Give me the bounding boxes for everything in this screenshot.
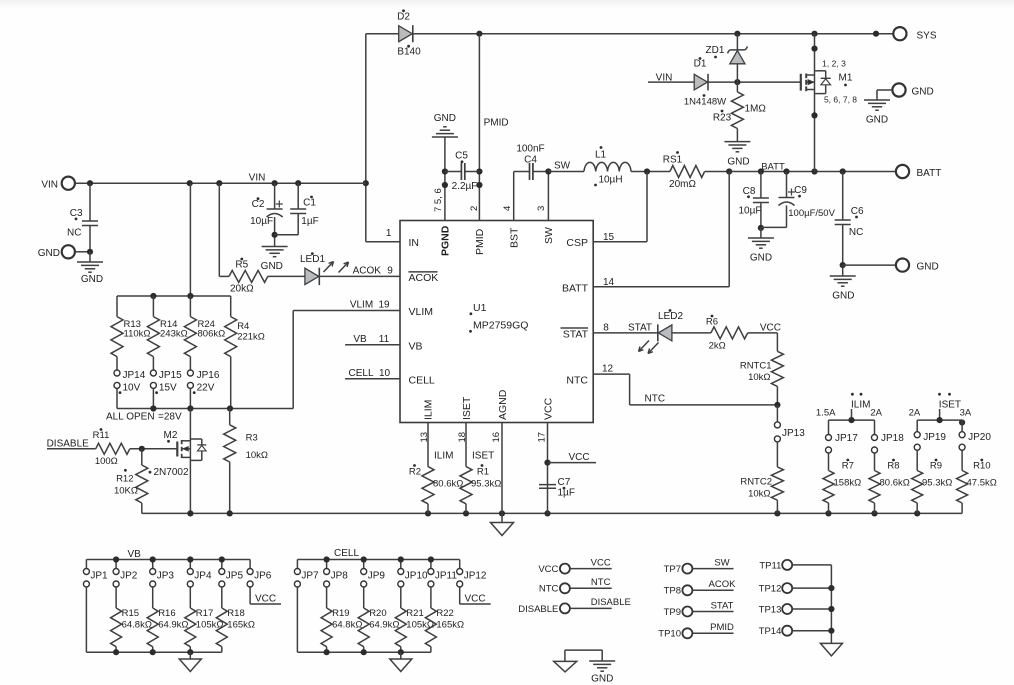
svg-text:R1: R1: [477, 467, 489, 478]
svg-text:R16: R16: [158, 608, 175, 619]
svg-text:806kΩ: 806kΩ: [198, 328, 226, 339]
svg-text:VCC: VCC: [542, 397, 554, 420]
svg-text:JP5: JP5: [226, 570, 244, 581]
svg-text:JP7: JP7: [301, 570, 319, 581]
svg-text:JP19: JP19: [923, 432, 946, 443]
svg-text:10KΩ: 10KΩ: [114, 486, 138, 497]
svg-text:GND: GND: [38, 248, 60, 259]
svg-text:R6: R6: [706, 317, 718, 328]
svg-text:NC: NC: [849, 227, 863, 238]
svg-text:NTC: NTC: [566, 374, 588, 386]
svg-text:158kΩ: 158kΩ: [834, 477, 862, 488]
svg-text:VCC: VCC: [538, 564, 558, 575]
svg-text:110kΩ: 110kΩ: [124, 328, 151, 339]
svg-text:10V: 10V: [123, 383, 141, 394]
svg-text:C4: C4: [524, 155, 537, 166]
svg-text:1: 1: [386, 228, 392, 239]
svg-text:R18: R18: [227, 608, 244, 619]
svg-text:R7: R7: [842, 460, 854, 471]
svg-text:243kΩ: 243kΩ: [160, 328, 188, 339]
svg-text:1µF: 1µF: [301, 216, 318, 227]
svg-text:80.6kΩ: 80.6kΩ: [880, 477, 910, 488]
svg-text:BST: BST: [509, 227, 521, 248]
svg-text:1, 2, 3: 1, 2, 3: [822, 59, 846, 69]
svg-text:4: 4: [502, 206, 513, 211]
svg-text:ISET: ISET: [472, 451, 494, 462]
svg-text:10µF: 10µF: [739, 206, 762, 217]
svg-text:R2: R2: [409, 467, 421, 478]
svg-text:5, 6, 7, 8: 5, 6, 7, 8: [824, 95, 857, 105]
svg-text:9: 9: [387, 266, 393, 277]
svg-text:GND: GND: [591, 673, 613, 684]
svg-text:C1: C1: [303, 197, 316, 208]
svg-text:GND: GND: [727, 157, 749, 168]
svg-text:TP7: TP7: [664, 564, 681, 575]
svg-text:R22: R22: [436, 608, 453, 619]
svg-text:JP12: JP12: [464, 570, 487, 581]
svg-text:221kΩ: 221kΩ: [237, 332, 265, 343]
svg-text:GND: GND: [866, 115, 888, 126]
svg-text:U1: U1: [473, 302, 487, 314]
svg-text:R4: R4: [237, 321, 249, 332]
svg-text:=28V: =28V: [158, 412, 182, 423]
svg-text:GND: GND: [434, 113, 456, 124]
svg-text:GND: GND: [912, 87, 934, 98]
svg-text:JP18: JP18: [881, 433, 904, 444]
svg-text:64.9kΩ: 64.9kΩ: [369, 620, 399, 631]
svg-text:10: 10: [379, 368, 391, 379]
svg-text:VCC: VCC: [255, 594, 276, 605]
svg-text:STAT: STAT: [563, 328, 589, 340]
svg-text:JP16: JP16: [197, 370, 220, 381]
svg-text:STAT: STAT: [628, 322, 652, 333]
svg-text:VB: VB: [409, 340, 423, 352]
svg-text:PMID: PMID: [710, 622, 734, 633]
svg-text:PGND: PGND: [440, 225, 452, 256]
svg-text:1N4148W: 1N4148W: [684, 97, 726, 108]
svg-text:STAT: STAT: [711, 600, 734, 611]
svg-text:VIN: VIN: [249, 173, 266, 184]
svg-text:JP3: JP3: [157, 570, 175, 581]
svg-text:R11: R11: [93, 430, 110, 441]
svg-text:JP13: JP13: [782, 428, 805, 439]
svg-text:R9: R9: [930, 460, 942, 471]
svg-text:VB: VB: [353, 334, 367, 345]
svg-text:BATT: BATT: [917, 168, 942, 179]
svg-text:20kΩ: 20kΩ: [230, 283, 254, 294]
svg-text:D2: D2: [397, 11, 410, 22]
svg-text:BATT: BATT: [761, 162, 785, 173]
svg-text:SW: SW: [543, 227, 555, 244]
svg-text:VCC: VCC: [760, 322, 781, 333]
svg-text:PMID: PMID: [474, 228, 486, 255]
svg-text:C9: C9: [794, 185, 807, 196]
svg-text:GND: GND: [750, 252, 772, 263]
svg-text:VLIM: VLIM: [409, 306, 434, 318]
svg-text:DISABLE: DISABLE: [47, 439, 90, 450]
svg-text:NTC: NTC: [539, 584, 559, 595]
svg-text:ALL OPEN: ALL OPEN: [106, 412, 155, 423]
svg-text:VB: VB: [128, 549, 142, 560]
svg-text:JP17: JP17: [835, 433, 858, 444]
svg-text:B140: B140: [397, 47, 421, 58]
svg-text:JP10: JP10: [405, 570, 428, 581]
svg-text:CELL: CELL: [334, 548, 359, 559]
svg-text:C6: C6: [851, 206, 864, 217]
svg-text:R10: R10: [973, 460, 990, 471]
svg-text:C3: C3: [70, 208, 83, 219]
svg-text:GND: GND: [917, 261, 939, 272]
svg-text:BATT: BATT: [562, 282, 589, 294]
svg-text:M1: M1: [839, 73, 853, 84]
svg-text:1µF: 1µF: [558, 488, 575, 499]
svg-text:C5: C5: [455, 151, 468, 162]
svg-text:ILIM: ILIM: [434, 451, 453, 462]
svg-text:ACOK: ACOK: [409, 272, 439, 284]
svg-text:ACOK: ACOK: [353, 266, 382, 277]
svg-text:ILIM: ILIM: [423, 400, 435, 420]
svg-text:JP1: JP1: [90, 570, 108, 581]
svg-text:TP12: TP12: [759, 584, 782, 595]
svg-text:JP4: JP4: [194, 570, 212, 581]
svg-text:16: 16: [491, 432, 502, 443]
svg-text:11: 11: [379, 334, 390, 345]
svg-text:165kΩ: 165kΩ: [227, 620, 255, 631]
svg-text:RNTC2: RNTC2: [740, 477, 772, 488]
svg-text:JP6: JP6: [254, 570, 272, 581]
svg-text:VCC: VCC: [591, 557, 611, 568]
svg-text:R15: R15: [122, 608, 139, 619]
svg-text:NC: NC: [67, 228, 81, 239]
svg-text:VCC: VCC: [568, 452, 589, 463]
svg-text:C8: C8: [743, 186, 756, 197]
svg-text:VLIM: VLIM: [350, 300, 373, 311]
svg-text:R12: R12: [116, 473, 133, 484]
svg-text:TP10: TP10: [658, 629, 681, 640]
svg-text:3: 3: [536, 206, 547, 211]
svg-text:JP2: JP2: [120, 570, 138, 581]
svg-text:64.8kΩ: 64.8kΩ: [122, 620, 152, 631]
svg-text:M2: M2: [164, 430, 178, 441]
svg-text:80.6kΩ: 80.6kΩ: [433, 479, 463, 490]
svg-text:95.3kΩ: 95.3kΩ: [922, 477, 952, 488]
svg-text:15: 15: [603, 232, 615, 243]
svg-text:TP11: TP11: [759, 560, 781, 571]
svg-text:ISET: ISET: [939, 400, 961, 411]
svg-text:DISABLE: DISABLE: [518, 604, 558, 615]
svg-text:SW: SW: [554, 161, 571, 172]
svg-text:20mΩ: 20mΩ: [669, 179, 696, 190]
svg-text:C2: C2: [252, 199, 265, 210]
svg-text:CELL: CELL: [348, 368, 373, 379]
svg-text:2A: 2A: [870, 408, 882, 419]
svg-text:PMID: PMID: [484, 118, 509, 129]
svg-text:NTC: NTC: [645, 393, 666, 404]
svg-text:GND: GND: [832, 290, 854, 301]
svg-text:2N7002: 2N7002: [153, 467, 188, 478]
svg-text:10µH: 10µH: [598, 175, 622, 186]
svg-text:DISABLE: DISABLE: [591, 597, 631, 608]
svg-text:CSP: CSP: [566, 237, 588, 249]
svg-text:VCC: VCC: [464, 594, 485, 605]
svg-text:VIN: VIN: [41, 179, 58, 190]
svg-text:2A: 2A: [909, 408, 921, 419]
svg-text:R5: R5: [235, 260, 248, 271]
svg-text:1MΩ: 1MΩ: [745, 104, 767, 115]
svg-text:JP14: JP14: [123, 370, 146, 381]
svg-text:64.8kΩ: 64.8kΩ: [332, 620, 362, 631]
svg-text:TP9: TP9: [664, 607, 681, 618]
svg-text:R21: R21: [406, 608, 423, 619]
svg-text:R19: R19: [332, 608, 349, 619]
svg-text:SYS: SYS: [917, 30, 937, 41]
svg-text:3A: 3A: [960, 408, 972, 419]
svg-text:RS1: RS1: [663, 155, 683, 166]
svg-text:12: 12: [602, 364, 614, 375]
svg-text:2.2µF: 2.2µF: [452, 181, 478, 192]
svg-text:SW: SW: [714, 557, 729, 568]
svg-text:95.3kΩ: 95.3kΩ: [471, 479, 501, 490]
svg-text:22V: 22V: [197, 383, 215, 394]
svg-text:RNTC1: RNTC1: [740, 360, 772, 371]
svg-text:JP15: JP15: [159, 370, 182, 381]
svg-text:100nF: 100nF: [516, 144, 544, 155]
svg-text:JP9: JP9: [368, 570, 386, 581]
svg-text:10kΩ: 10kΩ: [246, 450, 268, 461]
svg-text:L1: L1: [595, 150, 607, 161]
svg-text:ACOK: ACOK: [709, 579, 737, 590]
svg-text:ZD1: ZD1: [706, 45, 725, 56]
svg-text:1.5A: 1.5A: [816, 408, 836, 419]
svg-text:64.9kΩ: 64.9kΩ: [158, 620, 188, 631]
svg-text:ILIM: ILIM: [851, 400, 870, 411]
svg-text:15V: 15V: [159, 383, 177, 394]
svg-text:10µF: 10µF: [250, 216, 273, 227]
svg-text:R23: R23: [713, 113, 732, 124]
svg-text:R8: R8: [887, 460, 899, 471]
svg-text:100Ω: 100Ω: [95, 456, 118, 467]
svg-text:17: 17: [537, 432, 548, 443]
svg-text:2: 2: [469, 206, 480, 211]
svg-text:R17: R17: [196, 608, 213, 619]
svg-text:JP11: JP11: [435, 570, 457, 581]
svg-text:8: 8: [603, 322, 609, 333]
svg-text:GND: GND: [261, 261, 283, 272]
svg-text:LED2: LED2: [658, 311, 683, 322]
svg-text:JP8: JP8: [331, 570, 349, 581]
svg-text:D1: D1: [694, 58, 707, 69]
svg-text:MP2759GQ: MP2759GQ: [473, 320, 528, 332]
svg-text:LED1: LED1: [300, 254, 325, 265]
svg-text:100µF/50V: 100µF/50V: [788, 208, 835, 219]
svg-text:GND: GND: [81, 274, 103, 285]
svg-text:TP14: TP14: [759, 626, 782, 637]
svg-text:R3: R3: [246, 433, 258, 444]
svg-text:TP8: TP8: [664, 586, 681, 597]
svg-text:IN: IN: [409, 237, 420, 249]
svg-text:19: 19: [378, 300, 390, 311]
svg-text:7 5, 6: 7 5, 6: [433, 188, 444, 212]
svg-text:10kΩ: 10kΩ: [748, 372, 770, 383]
svg-text:JP20: JP20: [968, 432, 991, 443]
svg-text:AGND: AGND: [497, 389, 509, 420]
svg-text:2kΩ: 2kΩ: [709, 341, 726, 352]
svg-text:47.5kΩ: 47.5kΩ: [967, 477, 997, 488]
svg-text:R20: R20: [369, 608, 386, 619]
svg-text:NTC: NTC: [591, 577, 611, 588]
svg-text:CELL: CELL: [409, 374, 435, 386]
svg-text:ISET: ISET: [461, 396, 473, 420]
svg-text:10kΩ: 10kΩ: [748, 488, 770, 499]
svg-text:14: 14: [603, 277, 615, 288]
svg-text:165kΩ: 165kΩ: [436, 620, 464, 631]
svg-text:TP13: TP13: [759, 604, 782, 615]
